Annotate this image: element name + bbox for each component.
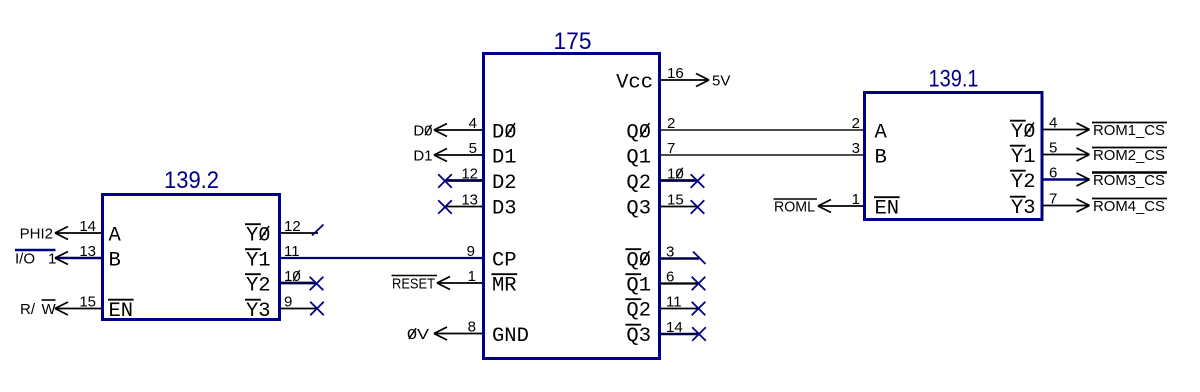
U2 pin 15 Q3 stub wire — [661, 206, 698, 208]
svg-text:ROM4_CS: ROM4_CS — [1093, 198, 1165, 215]
U2 pin 8 arrowhead — [434, 327, 447, 340]
U3 pin 7 arrowhead to ROM4_CS — [1077, 199, 1090, 212]
U2 pin 4 number — [469, 115, 477, 132]
svg-text:1: 1 — [852, 191, 860, 208]
U2 pin 5 D1 stub wire — [434, 154, 482, 156]
net label PHI2 — [20, 225, 53, 242]
U2 pin 9 CP number — [467, 243, 475, 260]
svg-text:Y3: Y3 — [246, 300, 271, 323]
U1 pin 12 number — [284, 218, 301, 235]
U1 pin 13 arrowhead — [55, 252, 68, 265]
net label R/W — [20, 301, 57, 318]
svg-text:D2: D2 — [492, 172, 517, 195]
U2 pin MR name with overline — [492, 274, 518, 297]
U2 pin 3 /Q0 stub wire — [661, 257, 699, 260]
svg-text:15: 15 — [79, 293, 96, 310]
net label R/W overline over W — [42, 299, 56, 301]
U2 pin 16 Vcc stub wire — [661, 79, 709, 81]
U1 pin 12 Y0 stub wire — [281, 232, 318, 234]
U1 pin Y2 name with overline — [245, 274, 271, 297]
svg-text:5V: 5V — [712, 72, 730, 89]
U1 pin 9 Y3 stub wire — [281, 308, 317, 310]
svg-text:14: 14 — [666, 319, 683, 336]
svg-text:Q2: Q2 — [626, 300, 651, 323]
svg-text:D1: D1 — [413, 147, 432, 164]
svg-text:6: 6 — [666, 268, 674, 285]
U2 pin 14 number — [666, 319, 683, 336]
net label ROML overline — [774, 198, 818, 200]
svg-text:0V: 0V — [407, 326, 429, 343]
svg-text:7: 7 — [1049, 190, 1057, 207]
U2 pin 1 MR stub wire — [437, 282, 482, 284]
net label ROM3_CS overline — [1092, 171, 1167, 174]
U3 pin 1 EN stub wire — [818, 205, 863, 207]
net label ROM2_CS — [1093, 147, 1165, 164]
svg-text:10: 10 — [284, 268, 301, 285]
svg-text:R/: R/ — [20, 301, 36, 318]
U2 pin 14 no-connect X — [692, 327, 706, 341]
U2 pin D0 name — [492, 122, 517, 145]
svg-text:4: 4 — [469, 115, 477, 132]
svg-text:16: 16 — [667, 65, 684, 82]
svg-text:CP: CP — [492, 250, 517, 273]
U1 pin A name — [109, 225, 122, 248]
svg-text:D3: D3 — [492, 198, 517, 221]
svg-text:Vcc: Vcc — [616, 72, 653, 95]
net label I/O 1 overline — [15, 249, 56, 251]
svg-text:Q1: Q1 — [626, 147, 651, 170]
U3 pin 7 number — [1049, 190, 1057, 207]
U3 pin 5 number — [1049, 139, 1057, 156]
svg-text:10: 10 — [667, 165, 684, 182]
U1 pin 11 number — [284, 243, 300, 260]
net label RESET overline — [392, 275, 438, 277]
U3 pin 3 number — [852, 140, 860, 157]
net label RESET — [392, 275, 435, 292]
U2 pin 15 no-connect X — [691, 200, 705, 214]
U2 pin 2 number — [667, 115, 675, 132]
svg-text:3: 3 — [666, 243, 674, 260]
U1 pin 12 no-connect slash — [312, 225, 324, 236]
U3 pin A name — [875, 122, 888, 145]
U3 pin 4 Y0 stub wire — [1044, 129, 1090, 131]
U1 pin 15 arrowhead — [55, 302, 68, 315]
U3 pin B name — [875, 147, 887, 170]
net Q0-to-U3.A wire — [661, 129, 863, 131]
svg-text:B: B — [875, 147, 887, 170]
U3 pin 1 number — [852, 191, 860, 208]
U2 pin 10 number — [667, 165, 684, 182]
U3 pin 6 number — [1049, 164, 1057, 181]
svg-text:7: 7 — [667, 140, 675, 157]
U2 pin 6 no-connect X — [692, 277, 706, 291]
U1 pin 13 number — [79, 243, 96, 260]
U2 pin CP name — [492, 250, 517, 273]
U2 pin 13 D3 stub wire — [445, 206, 482, 208]
U2 pin 11 number — [666, 293, 682, 310]
U3 pin 4 arrowhead to ROM1_CS — [1077, 123, 1090, 136]
svg-text:D0: D0 — [413, 122, 432, 139]
U2 pin 11 /Q2 stub wire — [661, 308, 699, 310]
U1 pin 10 number — [284, 268, 301, 285]
net label D0 — [413, 122, 432, 139]
svg-text:3: 3 — [852, 140, 860, 157]
U1 pin 14 A stub wire — [55, 232, 101, 234]
U2 pin /Q1 name with overline — [625, 274, 651, 297]
U2 pin 16 arrowhead to 5V — [696, 74, 709, 87]
svg-text:B: B — [109, 250, 121, 273]
net label D1 — [413, 147, 432, 164]
svg-text:Y2: Y2 — [1011, 171, 1036, 194]
svg-text:5: 5 — [469, 140, 477, 157]
U2 pin 6 number — [666, 268, 674, 285]
svg-text:139.1: 139.1 — [929, 66, 979, 93]
U2 pin GND name — [492, 325, 529, 348]
U1 pin 9 no-connect X — [310, 302, 324, 316]
U2 pin 10 no-connect X — [691, 174, 705, 188]
U2 pin 8 GND stub wire — [434, 333, 482, 335]
U2 pin Q1 name — [626, 147, 651, 170]
net label ROM2_CS overline — [1092, 147, 1167, 149]
U2 pin 6 /Q1 stub wire — [661, 282, 699, 284]
svg-text:W: W — [42, 301, 57, 318]
svg-text:5: 5 — [1049, 139, 1057, 156]
svg-text:13: 13 — [461, 191, 478, 208]
svg-text:1: 1 — [48, 250, 56, 267]
svg-text:11: 11 — [666, 293, 682, 310]
U3 pin Y3 name with overline — [1010, 197, 1036, 220]
svg-text:8: 8 — [468, 318, 476, 335]
svg-text:12: 12 — [284, 218, 301, 235]
U3 pin Y1 name with overline — [1010, 146, 1036, 169]
U3 pin 4 number — [1049, 114, 1057, 131]
U3 pin Y2 name with overline — [1010, 171, 1036, 194]
U2 pin 5 number — [469, 140, 477, 157]
net label ROML — [774, 198, 815, 215]
U2 pin 12 number — [461, 165, 478, 182]
U2 pin 14 /Q3 stub wire — [661, 333, 699, 336]
svg-text:Y1: Y1 — [246, 250, 271, 273]
U2 pin /Q3 name with overline — [625, 325, 651, 348]
U3 pin 5 Y1 stub wire — [1044, 154, 1090, 156]
U2 pin 4 D0 stub wire — [434, 129, 482, 131]
U2 pin D2 name — [492, 172, 517, 195]
svg-text:2: 2 — [852, 115, 860, 132]
U1 pin 10 Y2 stub wire — [281, 282, 316, 285]
svg-text:RESET: RESET — [392, 275, 435, 292]
svg-text:Y3: Y3 — [1011, 197, 1036, 220]
svg-text:14: 14 — [79, 218, 96, 235]
U2 pin 11 no-connect X — [692, 302, 706, 316]
svg-text:A: A — [109, 225, 122, 248]
svg-text:6: 6 — [1049, 164, 1057, 181]
U3 pin Y0 name with overline — [1010, 121, 1036, 144]
svg-text:Y2: Y2 — [246, 275, 271, 298]
U3 pin 1 arrowhead — [818, 200, 831, 213]
svg-text:Q2: Q2 — [626, 172, 651, 195]
net label ROM1_CS overline — [1092, 122, 1167, 124]
IC U3 139.1 dual 2-to-4 decoder body — [865, 93, 1043, 220]
U2 pin D3 name — [492, 198, 517, 221]
U1 pin 14 arrowhead — [55, 227, 68, 240]
svg-text:13: 13 — [79, 243, 96, 260]
U1 pin EN name with overline — [108, 300, 134, 323]
U1 pin 14 number — [79, 218, 96, 235]
svg-text:Q3: Q3 — [626, 325, 651, 348]
svg-text:D1: D1 — [492, 147, 517, 170]
svg-text:139.2: 139.2 — [164, 167, 219, 194]
IC U3 refdes 139.1 — [929, 66, 979, 93]
svg-text:A: A — [875, 122, 888, 145]
U2 pin 8 number — [468, 318, 476, 335]
svg-text:EN: EN — [109, 300, 134, 323]
svg-text:9: 9 — [284, 293, 292, 310]
svg-text:15: 15 — [667, 191, 684, 208]
U3 pin EN name with overline — [874, 197, 900, 220]
svg-text:Q1: Q1 — [626, 275, 651, 298]
U1 pin 9 number — [284, 293, 292, 310]
U2 pin 4 arrowhead — [434, 124, 447, 137]
net label ROM4_CS overline — [1092, 198, 1167, 200]
svg-text:2: 2 — [667, 115, 675, 132]
U2 pin Q0 name — [626, 122, 651, 145]
svg-text:MR: MR — [492, 275, 517, 298]
U2 pin 3 no-connect slash — [693, 252, 706, 265]
U2 pin 12 D2 stub wire — [445, 179, 482, 182]
U1 pin 15 EN stub wire — [55, 308, 101, 310]
svg-text:PHI2: PHI2 — [20, 225, 53, 242]
U1 pin Y0 name with overline — [245, 224, 271, 247]
U1 pin Y1 name with overline — [245, 249, 271, 272]
U3 pin 6 Y2 stub wire — [1044, 178, 1090, 180]
IC U2 refdes 175 — [554, 28, 592, 55]
U3 pin 5 arrowhead to ROM2_CS — [1077, 148, 1090, 161]
svg-text:12: 12 — [461, 165, 478, 182]
U2 pin 5 arrowhead — [434, 149, 447, 162]
U2 pin 1 arrowhead — [437, 277, 450, 290]
svg-text:Q3: Q3 — [626, 198, 651, 221]
svg-text:11: 11 — [284, 243, 300, 260]
net label ROM1_CS — [1093, 122, 1165, 139]
U2 pin Q2 name — [626, 172, 651, 195]
svg-text:ROML: ROML — [774, 198, 815, 215]
U1 pin 13 B stub wire — [55, 257, 101, 259]
net label ROM4_CS — [1093, 198, 1165, 215]
U2 pin 13 number — [461, 191, 478, 208]
U2 pin Q3 name — [626, 198, 651, 221]
U1 pin 10 no-connect X — [310, 277, 324, 291]
net label I/O 1 — [15, 250, 56, 267]
U3 pin 7 Y3 stub wire — [1044, 205, 1090, 207]
svg-text:ROM2_CS: ROM2_CS — [1093, 147, 1165, 164]
svg-text:ROM3_CS: ROM3_CS — [1093, 172, 1165, 189]
U2 pin 7 number — [667, 140, 675, 157]
U3 pin 2 number — [852, 115, 860, 132]
svg-text:ROM1_CS: ROM1_CS — [1093, 122, 1165, 139]
U2 pin /Q2 name with overline — [625, 299, 651, 322]
net label 0V — [407, 326, 429, 343]
svg-text:Y1: Y1 — [1011, 146, 1036, 169]
U2 pin 15 number — [667, 191, 684, 208]
net Q1-to-U3.B wire — [661, 154, 863, 156]
U2 pin 3 number — [666, 243, 674, 260]
IC U1 139.2 dual 2-to-4 decoder body — [103, 195, 280, 320]
U3 pin 6 arrowhead to ROM3_CS — [1077, 173, 1090, 186]
U1 pin 15 number — [79, 293, 96, 310]
U2 pin 12 no-connect X — [438, 174, 452, 188]
U2 pin 10 Q2 stub wire — [661, 179, 698, 182]
IC U2 175 quad D flip-flop body — [484, 54, 660, 359]
net label ROM3_CS — [1093, 172, 1165, 189]
U2 pin Vcc name — [616, 72, 653, 95]
net Y1-to-CP wire — [281, 257, 482, 259]
svg-text:9: 9 — [467, 243, 475, 260]
U2 pin /Q0 name with overline — [625, 249, 651, 272]
svg-text:EN: EN — [875, 198, 900, 221]
net label 5V — [712, 72, 730, 89]
U2 pin 1 number — [468, 268, 476, 285]
U2 pin 16 number — [667, 65, 684, 82]
U2 pin D1 name — [492, 147, 517, 170]
svg-text:I/O: I/O — [15, 250, 35, 267]
IC U1 refdes 139.2 — [164, 167, 219, 194]
svg-text:175: 175 — [554, 28, 592, 55]
svg-text:4: 4 — [1049, 114, 1057, 131]
U2 pin 13 no-connect X — [438, 200, 452, 214]
U1 pin Y3 name with overline — [245, 300, 271, 323]
svg-text:GND: GND — [492, 325, 529, 348]
U1 pin B name — [109, 250, 121, 273]
svg-text:1: 1 — [468, 268, 476, 285]
